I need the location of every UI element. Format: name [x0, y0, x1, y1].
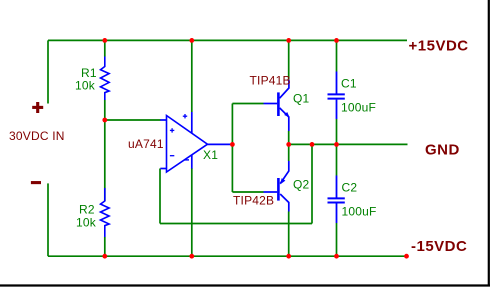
svg-text:C2: C2	[342, 181, 358, 195]
wire C1 bottom lead to GND rail	[336, 119, 338, 144]
junction top rail / R1	[102, 38, 107, 43]
op-amp minus input mark	[170, 155, 174, 157]
junction top rail / C1	[334, 38, 339, 43]
svg-text:C1: C1	[341, 77, 357, 91]
svg-text:30VDC IN: 30VDC IN	[9, 129, 65, 143]
op-amp V- mark	[184, 159, 189, 161]
wire op-amp V+ pin to top rail	[191, 40, 193, 112]
wire node A to op-amp noninverting input	[105, 119, 161, 121]
wire Q1 collector to top rail	[288, 40, 290, 79]
svg-text:GND: GND	[425, 141, 460, 158]
svg-text:TIP41B: TIP41B	[250, 74, 291, 88]
junction bottom rail / R2	[102, 254, 107, 259]
capacitor C1	[328, 72, 345, 120]
op-amp U1 triangle	[167, 116, 208, 173]
svg-text:uA741: uA741	[128, 137, 164, 151]
wire Q2 emitter to GND node	[288, 144, 290, 161]
svg-text:R2: R2	[79, 203, 95, 217]
junction top rail / Q1 collector	[286, 38, 291, 43]
op-amp noninverting input stub	[160, 119, 166, 121]
junction bottom rail / C2	[334, 254, 339, 259]
wire feedback vertical to inverting input	[159, 169, 161, 224]
node A R1/R2 divider	[102, 118, 107, 123]
svg-text:-15VDC: -15VDC	[411, 238, 467, 255]
wire to Q2 base	[232, 191, 263, 193]
wire between R1 and R2 through node A	[104, 100, 106, 201]
junction GND rail / Q1 emitter Q2 emitter	[286, 142, 291, 147]
svg-text:+15VDC: +15VDC	[409, 38, 469, 55]
wire left vertical from + terminal to top rail	[47, 40, 49, 103]
junction bottom rail / Q2 collector	[286, 254, 291, 259]
node op-amp output	[230, 142, 235, 147]
svg-text:Q2: Q2	[293, 178, 310, 192]
op-amp V- pin stub	[191, 155, 193, 169]
svg-text:10k: 10k	[76, 216, 97, 230]
node -15VDC wire end	[404, 254, 409, 259]
wire R1 top lead	[104, 40, 106, 56]
svg-text:X1: X1	[203, 148, 218, 162]
svg-text:100uF: 100uF	[341, 101, 376, 115]
op-amp plus input mark	[170, 128, 174, 132]
wire op-amp V- pin to bottom rail	[191, 168, 193, 256]
junction bottom rail / op-amp V-	[189, 254, 194, 259]
op-amp V+ pin stub	[191, 112, 193, 134]
resistor R2	[101, 188, 110, 237]
wire bottom -15V rail	[48, 255, 407, 257]
wire Q1 emitter to GND node	[288, 131, 290, 144]
junction top rail / op-amp V+	[189, 38, 194, 43]
wire C2 bottom lead to bottom rail	[336, 223, 338, 256]
capacitor C2	[328, 176, 345, 224]
transistor Q1	[264, 80, 290, 131]
svg-text:TIP42B: TIP42B	[233, 194, 274, 208]
junction GND rail / C1 C2	[334, 142, 339, 147]
wire R2 bottom lead	[104, 237, 106, 256]
junction GND rail / feedback	[310, 142, 315, 147]
resistor R1	[101, 57, 110, 101]
minus input terminal mark	[31, 181, 41, 184]
wire GND output rail	[289, 143, 408, 145]
wire vertical from Q1 base corner to Q2 base corner through output node	[231, 104, 233, 193]
op-amp output lead	[208, 143, 233, 145]
op-amp V+ mark	[183, 114, 187, 118]
wire feedback horizontal	[160, 223, 312, 225]
wire C2 top lead to GND rail	[336, 144, 338, 175]
wire left vertical from - terminal to bottom rail	[47, 183, 49, 256]
wire C1 top lead to top rail	[336, 40, 338, 71]
svg-text:Q1: Q1	[293, 92, 310, 106]
op-amp inverting input stub	[160, 168, 166, 170]
svg-text:100uF: 100uF	[342, 205, 377, 219]
wire feedback vertical from GND rail	[311, 144, 313, 223]
transistor Q2	[264, 161, 289, 212]
wire to Q1 base	[232, 103, 263, 105]
svg-text:10k: 10k	[75, 79, 96, 93]
plus input terminal mark	[32, 102, 43, 113]
wire Q2 collector to bottom rail	[288, 212, 290, 257]
wire top +15V rail	[48, 39, 407, 41]
